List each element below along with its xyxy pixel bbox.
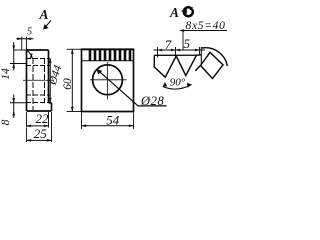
dimension 5 extension stub x21.75	[21, 37, 23, 51]
dimension 25 line	[27, 139, 52, 141]
serration teeth bars	[90, 50, 130, 61]
dim d44 top arrow	[49, 59, 51, 64]
dim22 arrows	[27, 125, 49, 127]
outline left view	[27, 50, 52, 111]
dimension 25 extension lines	[27, 112, 52, 142]
dimension 60 extension top	[67, 48, 82, 50]
view A corner arc	[202, 48, 227, 66]
view arrow A leader (left)	[45, 21, 52, 29]
extension line top edge for dim 14	[14, 49, 27, 51]
dim8 top outside arrow	[13, 98, 15, 103]
view arrow A head	[43, 24, 48, 29]
dimension 54 extension lines	[82, 113, 134, 130]
view A corner tooth diamond	[201, 52, 224, 78]
view A top edge	[154, 54, 201, 56]
angle arc left arrow	[163, 82, 167, 86]
dim d44 bottom arrow	[49, 98, 51, 103]
front view outline	[82, 49, 134, 111]
dim60 arrows	[71, 49, 73, 111]
svg-text:14: 14	[0, 68, 12, 80]
ext x199.5	[199, 47, 201, 55]
svg-text:Ø28: Ø28	[140, 94, 164, 108]
dim25 arrows	[27, 139, 52, 141]
rotated symbol arrow	[181, 8, 186, 13]
hole hidden line top	[27, 65, 50, 67]
dimension 5 line	[17, 38, 34, 40]
boss hidden line bottom	[27, 102, 50, 104]
dimension 60 extension bottom	[67, 111, 82, 113]
leader line d28	[97, 69, 167, 106]
svg-text:8x5=40: 8x5=40	[186, 20, 226, 32]
dimension 60 line vertical	[71, 49, 73, 111]
extension line y102.75 for dim 8	[10, 102, 27, 104]
svg-text:25: 25	[34, 126, 48, 141]
ext x175.5	[175, 47, 177, 56]
dim5 arrows	[176, 49, 200, 51]
svg-text:8: 8	[0, 119, 12, 125]
dimension 14 line vertical	[13, 42, 15, 71]
angle 90 arc	[163, 85, 192, 90]
serration slope mark top-left	[27, 51, 32, 59]
hidden vertical line x44.5	[44, 59, 46, 102]
angle arc right arrow	[187, 83, 191, 88]
view A short edge from diamond	[195, 66, 200, 71]
8x5=40 leader vertical	[182, 31, 184, 50]
dimension 54 line	[82, 125, 134, 127]
rotated symbol gap	[191, 5, 194, 9]
hole horizontal centerline	[90, 79, 127, 81]
dimension 22 line	[27, 125, 49, 127]
dim54 arrows	[82, 125, 134, 127]
rotated symbol circle	[184, 7, 193, 16]
dim line 7 and 5	[154, 49, 206, 51]
serration band bottom line	[82, 60, 134, 62]
dimension 8 line vertical	[13, 95, 15, 119]
svg-text:7: 7	[165, 37, 172, 52]
dimension d44 line vertical	[49, 59, 51, 103]
dim8 bottom outside arrow	[13, 111, 15, 116]
svg-text:5: 5	[184, 36, 191, 51]
ext x157.5	[157, 47, 159, 58]
dim7 arrows	[158, 49, 176, 51]
dim5 left outside arrow	[17, 38, 22, 40]
dimension 5 extension stub x26.5	[26, 37, 28, 51]
dimension 22 extension lines	[27, 112, 49, 128]
8x5=40 shelf	[181, 30, 227, 32]
dim14 top outside arrow	[13, 46, 15, 51]
serration mark inner tick	[31, 54, 33, 59]
svg-text:22: 22	[36, 111, 50, 126]
leader arrow at circle	[97, 69, 102, 74]
rotated symbol hook	[190, 8, 192, 10]
hole hidden line bottom	[27, 94, 50, 96]
hole circle d28	[93, 65, 123, 95]
svg-text:A: A	[38, 7, 48, 22]
extension line y63.5 for dim 14	[10, 63, 27, 65]
centerline hole axis left view	[23, 79, 54, 81]
hidden vertical line x33	[32, 59, 34, 110]
svg-text:A: A	[169, 5, 179, 20]
svg-text:5: 5	[27, 27, 32, 38]
boss hidden line top	[27, 58, 50, 60]
svg-text:54: 54	[106, 113, 120, 128]
hole vertical centerline	[107, 62, 109, 100]
svg-text:60: 60	[62, 78, 74, 90]
dim14 bottom outside arrow	[13, 64, 15, 69]
8x5=40 arrow	[180, 29, 185, 31]
svg-text:90°: 90°	[170, 77, 186, 89]
dim5 right outside arrow	[27, 38, 32, 40]
view A serrated profile	[154, 55, 196, 77]
